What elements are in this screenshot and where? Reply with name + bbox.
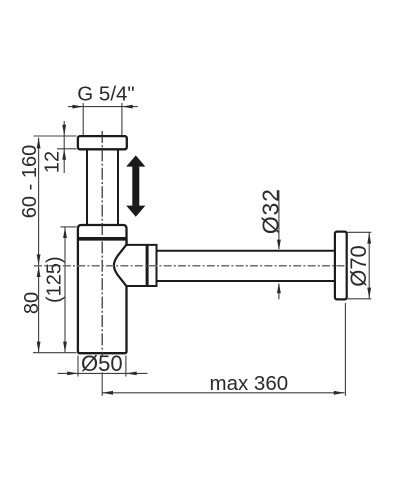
- max360 left (points left): [102, 391, 113, 395]
- O70 extensions: [348, 232, 372, 298]
- 125 bottom (points down): [63, 342, 67, 353]
- 12 top (points down): [62, 125, 66, 136]
- svg-text:max 360: max 360: [210, 372, 289, 395]
- flange top extension: [34, 135, 77, 137]
- O32 leader bottom: [278, 284, 280, 299]
- G 5/4 extension lines: [83, 103, 122, 135]
- O70 top (points up): [367, 233, 371, 244]
- G5/4 right (points left): [122, 105, 133, 109]
- top flange: [78, 136, 127, 149]
- G 5/4 dimension line: [68, 106, 138, 108]
- elbow right edge: [156, 244, 158, 287]
- O32 top (points down): [277, 240, 281, 251]
- O50 extensions: [78, 356, 126, 377]
- elbow bullet nose: [114, 244, 127, 287]
- 60-160 top (points up): [37, 138, 41, 149]
- O50 left (points right): [67, 372, 78, 376]
- collar band: [78, 237, 127, 241]
- wall flange: [335, 232, 347, 300]
- svg-text:Ø50: Ø50: [81, 351, 123, 376]
- G5/4 left (points right): [72, 105, 83, 109]
- horizontal pipe axis: [34, 265, 347, 267]
- cup body: [78, 225, 127, 353]
- bottom extension shared: [33, 352, 77, 354]
- svg-text:G 5/4": G 5/4": [77, 83, 134, 106]
- O70 bottom (points down): [367, 288, 371, 299]
- 12 dimension line: [63, 121, 65, 173]
- elbow body (white fill to mask cup edge): [114, 245, 157, 286]
- vertical cup axis: [101, 131, 103, 356]
- svg-text:60 - 160: 60 - 160: [19, 145, 41, 218]
- 125 dimension line: [64, 227, 66, 352]
- 80 top (points up): [37, 266, 41, 277]
- max360 right extension: [344, 303, 346, 396]
- horizontal pipe: [157, 251, 336, 281]
- 80 dimension line: [38, 266, 40, 352]
- svg-text:12: 12: [42, 151, 64, 173]
- svg-text:80: 80: [21, 292, 43, 314]
- tail pipe: [87, 149, 118, 225]
- 12 bottom (points up): [62, 149, 66, 160]
- elbow inlet stub: [126, 239, 128, 246]
- elbow top edge: [127, 244, 158, 246]
- svg-text:(125): (125): [44, 256, 66, 303]
- ring (thick): [146, 244, 149, 287]
- 80 bottom (points down): [37, 342, 41, 353]
- flange bottom extension: [57, 148, 77, 150]
- O50 dimension line: [58, 372, 148, 374]
- 60-160 dimension line: [38, 138, 40, 266]
- max360 left extension (cup axis): [101, 373, 103, 396]
- O50 right (points left): [126, 372, 137, 376]
- O32 leader top: [278, 190, 280, 249]
- max360 right (points right): [334, 391, 345, 395]
- elbow bottom edge: [127, 285, 158, 287]
- O32 bottom (points up): [277, 282, 281, 293]
- 60-160 bottom (points down): [37, 254, 41, 265]
- max360 dimension line: [102, 392, 344, 394]
- O70 dimension line: [368, 233, 370, 299]
- 125 top extension: [61, 226, 77, 228]
- svg-text:Ø32: Ø32: [257, 188, 283, 234]
- 125 top (points up): [63, 227, 67, 238]
- svg-text:Ø70: Ø70: [346, 245, 371, 287]
